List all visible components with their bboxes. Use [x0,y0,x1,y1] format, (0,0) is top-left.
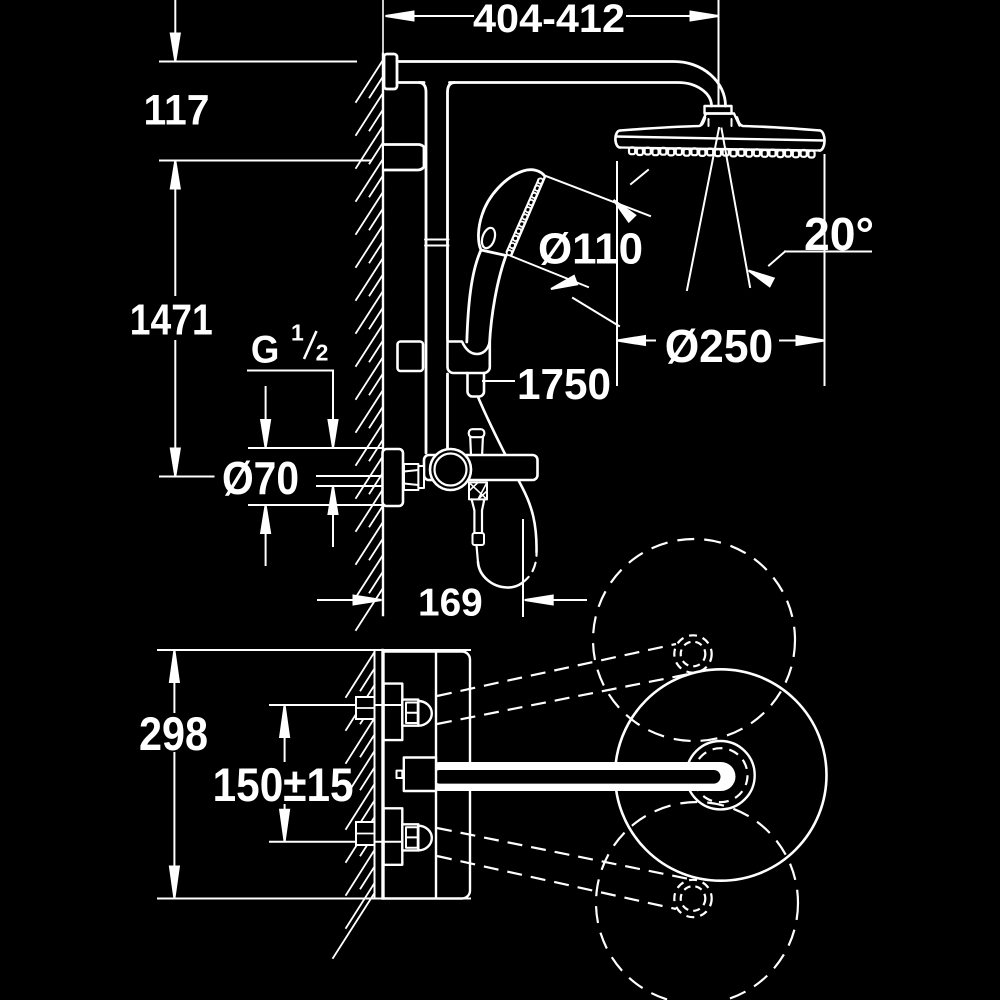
hose outlet below valve [469,482,487,499]
dim 298 [158,649,470,651]
svg-text:150±15: 150±15 [213,758,354,811]
pivot dashed circles top [674,635,711,672]
union hex nut [404,464,418,490]
pivot dashed circles bottom [674,880,711,917]
valve cartridge top (plan) [384,684,403,741]
wall lines (plan) [374,650,376,899]
spout union (plan) [404,758,436,792]
handshower head and handle [478,170,545,256]
spray cone lines 20deg [687,128,719,290]
backplate (plan) [384,652,437,899]
slider holder clamp [448,342,490,374]
thermostat valve body [424,455,538,480]
dim 117 [160,61,356,63]
dim 150+-15 [270,704,400,706]
dashed swivel arm bottom [437,828,694,880]
wall hatching (elevation) [356,60,383,102]
diverter knob [469,429,485,437]
valve cartridge bottom (plan) [384,808,403,865]
svg-text:169: 169 [418,582,483,625]
tub spout tube (plan) [425,762,736,791]
head bottom face [620,148,819,151]
svg-text:1: 1 [291,320,304,346]
wall line (elevation) [382,0,384,54]
dim O70 ref lines [249,447,382,449]
svg-text:404-412: 404-412 [473,0,625,41]
svg-text:Ø110: Ø110 [538,225,643,274]
center ring solid [686,741,754,809]
head collar [705,106,732,114]
supply stubs behind wall [356,697,375,719]
svg-text:117: 117 [144,87,210,135]
head rim line [616,137,825,141]
wall bracket [384,144,424,170]
handshower face [511,177,545,256]
handshower button [480,226,498,250]
shower rail pipe [419,83,426,454]
shower arm escutcheon [384,54,397,89]
head nozzles [629,147,635,154]
head shower profile [620,118,820,131]
svg-text:1750: 1750 [517,360,611,409]
svg-text:20°: 20° [804,208,874,260]
svg-text:G: G [251,328,280,371]
dim O250 [616,162,618,385]
head mount nut [701,114,740,126]
dashed swivel circle bottom [596,802,798,1000]
dim O110 extension lines [546,176,650,216]
thermostat body (plan) [437,652,470,899]
dim 20deg leader [785,251,871,253]
dim 1471 [160,160,371,162]
dim 1750 leader [483,380,514,382]
temperature knob [430,449,471,490]
wall flange escutcheon [383,449,404,506]
face nozzles [538,178,543,183]
wall hatching (plan) [346,652,375,697]
shower arm pipe [397,62,726,107]
dim 169 [318,599,353,601]
center ring dashed [694,748,748,802]
svg-text:2: 2 [316,339,329,365]
dashed swivel circle top [593,539,795,741]
slider holder left block [398,342,424,372]
svg-text:Ø70: Ø70 [222,452,299,504]
G 1/2 leader [248,370,333,372]
svg-text:1471: 1471 [130,296,213,345]
svg-text:298: 298 [139,707,208,760]
svg-text:Ø250: Ø250 [665,320,774,372]
dim 404-412 [718,0,720,104]
handshower hose [478,562,522,588]
center dot [397,771,403,778]
big solid circle (head plan) [615,669,826,880]
rail joint [425,239,449,241]
face rim inner line [507,180,539,253]
dashed swivel arm top [437,644,676,696]
hose nipple below holder [468,373,485,397]
